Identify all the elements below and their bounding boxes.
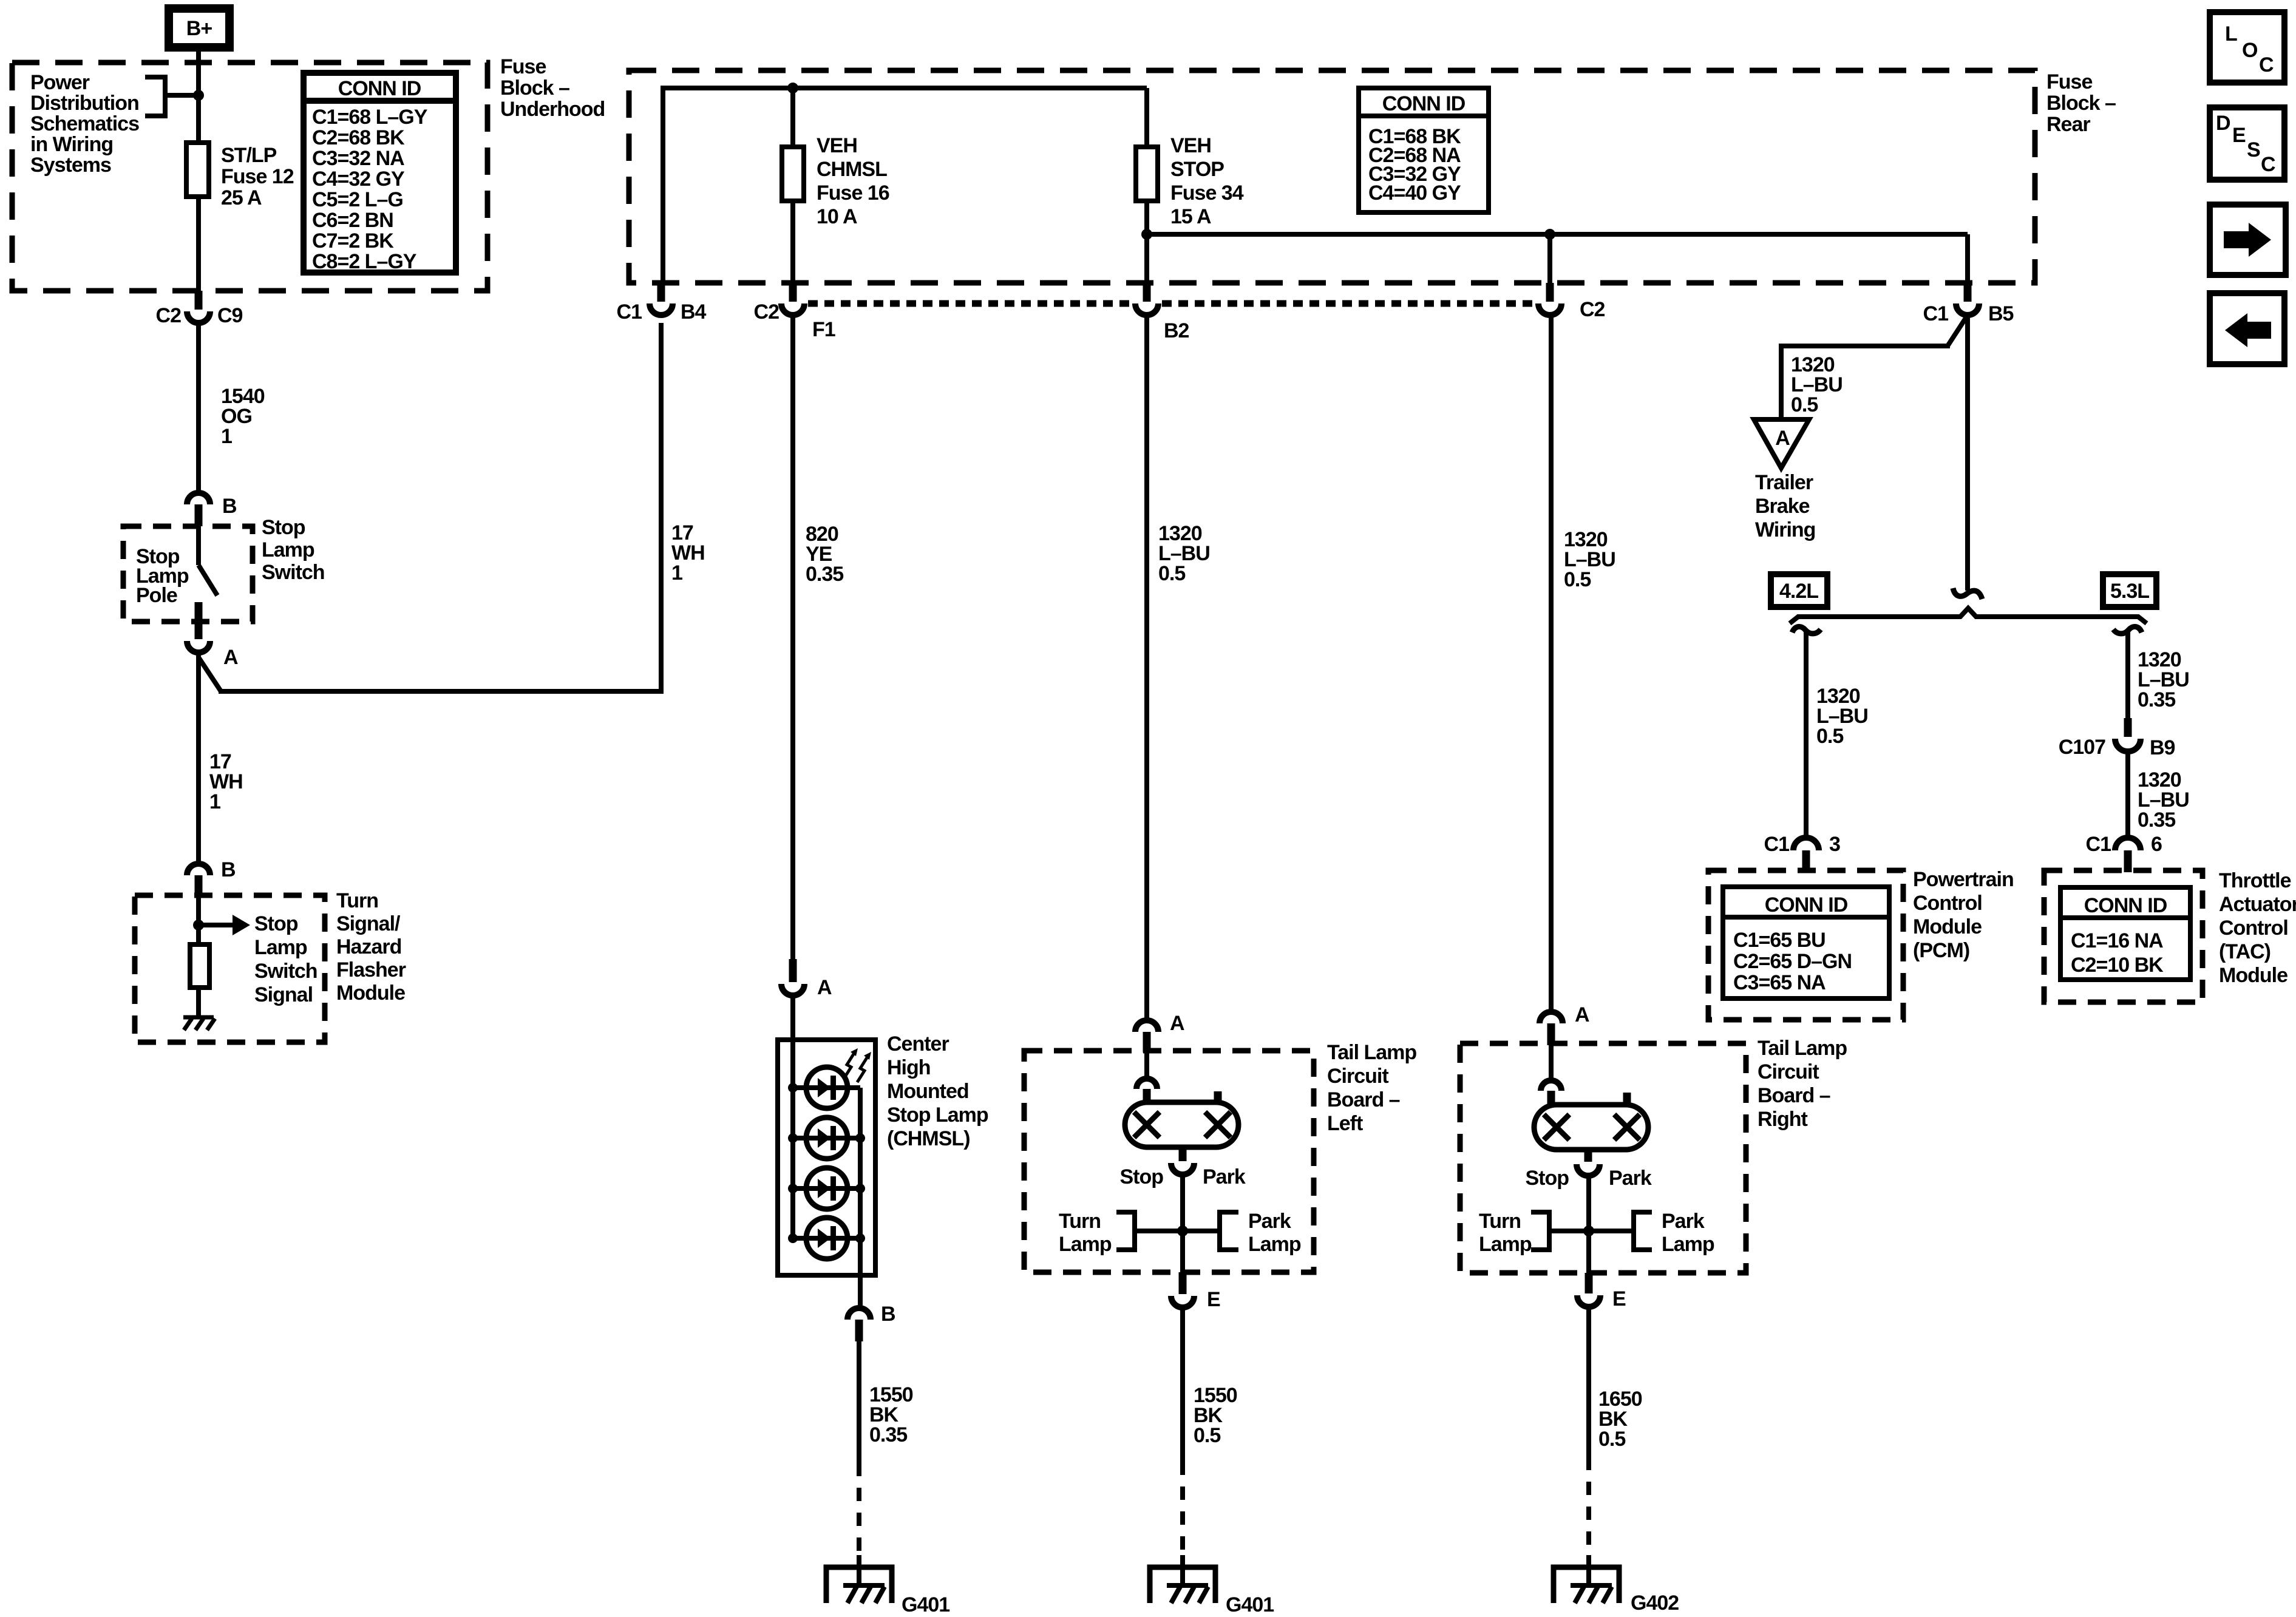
junction dot stop lamp switch signal (193, 920, 204, 931)
svg-text:A: A (1170, 1012, 1184, 1035)
junction dot right tail lamp (1583, 1225, 1594, 1236)
svg-text:3: 3 (1829, 833, 1840, 856)
label 1540 OG 1 (221, 385, 265, 448)
connector B flasher module (187, 858, 236, 895)
connector C107/B9 (2059, 718, 2175, 759)
wire A down to flasher module (196, 654, 201, 862)
svg-text:G402: G402 (1631, 1592, 1679, 1615)
svg-text:C1=65 BU: C1=65 BU (1733, 929, 1826, 952)
junction dot lower bus right (1544, 229, 1555, 240)
svg-text:Park: Park (1662, 1210, 1705, 1233)
svg-text:Module: Module (2219, 964, 2288, 987)
svg-text:Switch: Switch (254, 960, 318, 983)
ground G401 (left tail lamp) (1150, 1567, 1274, 1616)
CHMSL output bus (858, 1088, 863, 1308)
svg-text:Lamp: Lamp (1248, 1233, 1301, 1256)
junction dot top bus (787, 83, 798, 93)
note bracket (145, 77, 199, 116)
label 1320 L-BU 0.5 (PCM) (1816, 685, 1868, 748)
svg-text:5.3L: 5.3L (2110, 580, 2149, 603)
svg-text:(CHMSL): (CHMSL) (887, 1127, 970, 1150)
tail lamp bulb right (1534, 1093, 1648, 1150)
label Turn Signal/Hazard Flasher Module (336, 889, 406, 1005)
svg-text:C9: C9 (217, 304, 243, 327)
svg-text:C5=2 L–G: C5=2 L–G (312, 188, 403, 211)
svg-text:Underhood: Underhood (500, 98, 605, 121)
svg-text:Turn: Turn (1479, 1210, 1521, 1233)
svg-text:Power: Power (30, 71, 90, 94)
label 1320 L-BU 0.35 (upper) (2138, 648, 2189, 711)
label 1320 L-BU 0.5 (left tail) (1158, 522, 1210, 585)
wire 1550 BK 0.35 (857, 1341, 861, 1585)
label Throttle Actuator Control (TAC) Module (2219, 869, 2296, 987)
svg-text:Lamp: Lamp (262, 538, 314, 561)
wire drop to rear C2 (1547, 234, 1552, 283)
wire 820 YE 0.35 (790, 315, 795, 959)
svg-text:1: 1 (671, 561, 682, 585)
wire bulb to circuit junction right (1586, 1176, 1591, 1275)
wire into CHMSL (790, 995, 795, 1042)
svg-text:S: S (2247, 138, 2260, 161)
svg-text:(TAC): (TAC) (2219, 940, 2271, 963)
svg-text:Board –: Board – (1327, 1088, 1400, 1111)
svg-text:Circuit: Circuit (1327, 1065, 1388, 1088)
connector C2 rear (1538, 283, 1605, 321)
label 1320 L-BU 0.5 (right tail) (1564, 528, 1615, 591)
connector C1/6 TAC (2086, 833, 2162, 872)
stop lamp switch dashed box (123, 526, 253, 622)
svg-text:C3=65 NA: C3=65 NA (1733, 971, 1826, 994)
CHMSL lamp box (778, 1040, 875, 1275)
svg-text:1: 1 (209, 790, 220, 813)
label 1550 BK 0.35 (869, 1383, 913, 1446)
svg-text:Lamp: Lamp (1662, 1233, 1714, 1256)
wire into flasher module (196, 895, 201, 946)
label 17 WH 1 (switch output) (209, 750, 243, 813)
fuse block rear dashed box (629, 70, 2035, 283)
svg-text:B: B (881, 1303, 895, 1326)
wire 1550 BK 0.5 (1180, 1307, 1185, 1585)
svg-text:Hazard: Hazard (336, 935, 401, 958)
svg-text:25 A: 25 A (221, 186, 262, 209)
svg-text:C2=10 BK: C2=10 BK (2071, 954, 2164, 977)
svg-text:Park: Park (1609, 1167, 1652, 1190)
svg-text:Tail Lamp: Tail Lamp (1327, 1041, 1416, 1064)
svg-text:0.5: 0.5 (1791, 393, 1818, 416)
svg-text:C7=2 BK: C7=2 BK (312, 229, 394, 253)
svg-text:CONN ID: CONN ID (338, 77, 421, 100)
svg-text:G401: G401 (902, 1593, 949, 1616)
svg-text:Fuse 16: Fuse 16 (817, 181, 889, 205)
park lamp tap left (1220, 1210, 1301, 1256)
label Stop Lamp Switch (262, 516, 325, 584)
svg-text:B2: B2 (1164, 319, 1189, 342)
rear fuse block lower bus (1147, 232, 1968, 237)
svg-text:Turn: Turn (336, 889, 378, 912)
circuit board cross wire left (1135, 1229, 1220, 1233)
svg-text:Pole: Pole (136, 584, 177, 607)
tail lamp circuit board left dashed box (1024, 1051, 1314, 1272)
svg-text:0.5: 0.5 (1816, 725, 1843, 748)
branch curl 4.2L (1792, 626, 1821, 633)
wire 1320 L-BU 0.35 (upper) (2125, 631, 2130, 718)
svg-text:Module: Module (336, 981, 405, 1005)
wire bulb to circuit junction left (1180, 1175, 1185, 1275)
svg-text:Tail Lamp: Tail Lamp (1758, 1037, 1847, 1060)
engine option brace (1790, 608, 2147, 623)
svg-text:C1: C1 (2086, 833, 2111, 856)
fuse VEH STOP Fuse 34 15A (1136, 88, 1244, 283)
svg-text:A: A (223, 646, 238, 669)
svg-text:CHMSL: CHMSL (817, 158, 887, 181)
CONN ID table TAC (2060, 887, 2190, 980)
svg-text:F1: F1 (812, 318, 835, 341)
svg-text:Lamp: Lamp (254, 936, 307, 959)
svg-text:C107: C107 (2059, 736, 2105, 759)
wire C1/B5 to trailer branch (1779, 315, 1968, 591)
connector C1/B5 (1923, 283, 2014, 325)
label Fuse Block - Rear (2046, 70, 2116, 136)
svg-text:E: E (1207, 1288, 1220, 1311)
svg-text:Center: Center (887, 1032, 949, 1056)
wire 1320 L-BU 0.5 (left tail) (1144, 315, 1149, 1020)
svg-text:O: O (2242, 39, 2258, 62)
svg-text:A: A (817, 976, 832, 999)
svg-text:(PCM): (PCM) (1913, 939, 1969, 962)
svg-text:CONN ID: CONN ID (1382, 92, 1466, 115)
inner connector right tail lamp (1541, 1043, 1561, 1106)
label Trailer Brake Wiring (1755, 471, 1815, 541)
svg-text:B: B (221, 858, 236, 881)
nav icon next arrow (2210, 205, 2286, 275)
svg-text:C: C (2261, 153, 2275, 176)
branch curl 5.3L (2113, 626, 2142, 633)
svg-text:C1: C1 (617, 300, 642, 324)
svg-text:0.5: 0.5 (1564, 568, 1591, 591)
connector B CHMSL (847, 1303, 895, 1341)
resistor flasher module input (190, 944, 209, 1017)
powertrain control module dashed box (1708, 870, 1903, 1020)
svg-text:C8=2 L–GY: C8=2 L–GY (312, 250, 417, 273)
note Power Distribution Schematics in Wiring Systems (30, 71, 139, 177)
connector E left (1171, 1272, 1220, 1311)
svg-text:Block –: Block – (500, 76, 569, 100)
svg-text:L: L (2225, 22, 2237, 46)
svg-text:CONN ID: CONN ID (1765, 893, 1848, 917)
svg-text:Schematics: Schematics (30, 112, 139, 135)
svg-text:Throttle: Throttle (2219, 869, 2291, 892)
svg-text:Turn: Turn (1059, 1210, 1101, 1233)
svg-text:Mounted: Mounted (887, 1080, 969, 1103)
svg-text:Actuator: Actuator (2219, 893, 2296, 916)
svg-text:Switch: Switch (262, 561, 325, 584)
label Center High Mounted Stop Lamp (CHMSL) (887, 1032, 988, 1150)
CHMSL LED diodes (793, 1067, 860, 1259)
svg-text:Stop: Stop (1119, 1165, 1163, 1188)
svg-text:C: C (2259, 53, 2274, 76)
svg-text:C4=32 GY: C4=32 GY (312, 168, 405, 191)
svg-text:B+: B+ (186, 17, 212, 40)
junction dot power distribution tap (193, 90, 204, 101)
svg-text:Powertrain: Powertrain (1913, 868, 2014, 891)
svg-text:Park: Park (1248, 1210, 1291, 1233)
svg-text:G401: G401 (1226, 1593, 1274, 1616)
svg-text:0.35: 0.35 (2138, 808, 2175, 832)
svg-text:Signal: Signal (254, 983, 313, 1006)
junction dot lower bus left (1141, 229, 1152, 240)
svg-text:C3=32 NA: C3=32 NA (312, 147, 404, 170)
svg-text:C2: C2 (754, 300, 779, 324)
svg-text:Distribution: Distribution (30, 92, 139, 115)
svg-text:C1: C1 (1764, 833, 1790, 856)
svg-text:C2=68 BK: C2=68 BK (312, 126, 405, 149)
svg-text:1: 1 (221, 425, 232, 448)
svg-text:C1=68 L–GY: C1=68 L–GY (312, 106, 428, 129)
wire 1320 L-BU 0.5 (right tail) (1549, 315, 1554, 1012)
ground G401 (CHMSL) (826, 1567, 949, 1616)
label box 4.2L (1771, 574, 1827, 607)
svg-text:0.5: 0.5 (1598, 1428, 1625, 1451)
svg-text:Control: Control (1913, 892, 1982, 915)
CONN ID table PCM (1723, 887, 1889, 998)
wire 1320 L-BU 0.35 (lower) (2125, 751, 2130, 836)
svg-text:B9: B9 (2150, 736, 2175, 759)
label box 5.3L (2103, 574, 2156, 607)
stop lamp switch signal arrow (199, 915, 250, 935)
svg-text:Circuit: Circuit (1758, 1060, 1819, 1083)
connector C2/F1 (754, 283, 835, 341)
connector B2 (1135, 283, 1189, 342)
label 1550 BK 0.5 (1194, 1384, 1237, 1447)
svg-text:E: E (1612, 1287, 1626, 1310)
svg-text:10 A: 10 A (817, 205, 857, 228)
label Powertrain Control Module (PCM) (1913, 868, 2014, 962)
battery feed B+ symbol (169, 8, 229, 47)
svg-text:ST/LP: ST/LP (221, 144, 277, 167)
wire A to fuse block rear (17 WH 1) (199, 323, 661, 694)
svg-text:6: 6 (2151, 833, 2162, 856)
connector Stop/Park left (1119, 1147, 1245, 1188)
nav icon LOC (2210, 12, 2284, 83)
turn lamp tap right (1479, 1210, 1549, 1256)
connector B stop lamp switch (187, 493, 237, 526)
svg-text:C1=16 NA: C1=16 NA (2071, 929, 2163, 952)
ground flasher module internal (183, 1017, 215, 1030)
label Stop Lamp Switch Signal (254, 912, 318, 1006)
connector Stop/Park right (1525, 1150, 1651, 1190)
CHMSL bus junction dots (788, 1083, 865, 1243)
label 17 WH 1 (vertical run) (671, 521, 705, 585)
svg-text:Stop: Stop (1525, 1167, 1569, 1190)
svg-text:High: High (887, 1056, 931, 1079)
nav icon back arrow (2210, 293, 2284, 364)
svg-text:0.5: 0.5 (1194, 1424, 1220, 1447)
label 820 YE 0.35 (806, 523, 843, 586)
wire 1650 BK 0.5 (1586, 1307, 1591, 1585)
svg-text:Systems: Systems (30, 154, 111, 177)
svg-text:C6=2 BN: C6=2 BN (312, 209, 393, 232)
svg-text:E: E (2232, 124, 2246, 147)
turn lamp tap left (1059, 1210, 1135, 1256)
connector C2/C9 (156, 291, 243, 327)
ground G402 (1554, 1567, 1679, 1615)
svg-text:0.35: 0.35 (869, 1423, 907, 1446)
svg-text:0.35: 0.35 (806, 563, 843, 586)
connector face dotted line (808, 300, 1535, 307)
wire 1540 OG 1 (196, 323, 201, 493)
svg-text:A: A (1775, 427, 1790, 450)
svg-text:Left: Left (1327, 1112, 1363, 1135)
svg-text:C2: C2 (156, 304, 182, 327)
CHMSL input bus (790, 1040, 795, 1238)
throttle actuator control module dashed box (2044, 870, 2203, 1002)
svg-text:15 A: 15 A (1170, 205, 1211, 228)
svg-text:Flasher: Flasher (336, 958, 406, 981)
label Tail Lamp Circuit Board - Right (1758, 1037, 1847, 1131)
svg-text:VEH: VEH (1170, 134, 1211, 157)
wire B+ to ST/LP fuse (196, 52, 201, 144)
label 1320 L-BU 0.5 (trailer) (1791, 353, 1843, 416)
label 1650 BK 0.5 (1598, 1388, 1642, 1451)
tail lamp circuit board right dashed box (1460, 1043, 1746, 1273)
label Tail Lamp Circuit Board - Left (1327, 1041, 1416, 1135)
svg-text:D: D (2216, 112, 2230, 135)
svg-text:Fuse 34: Fuse 34 (1170, 181, 1244, 205)
inner connector left tail lamp (1136, 1051, 1157, 1103)
svg-text:B5: B5 (1988, 302, 2014, 325)
svg-text:CONN ID: CONN ID (2084, 894, 2167, 917)
svg-text:C2=65 D–GN: C2=65 D–GN (1733, 950, 1852, 973)
svg-text:Fuse 12: Fuse 12 (221, 165, 294, 188)
label 1320 L-BU 0.35 (lower) (2138, 768, 2189, 832)
svg-text:Rear: Rear (2046, 113, 2090, 136)
svg-text:Control: Control (2219, 917, 2288, 940)
svg-text:C2: C2 (1580, 298, 1605, 321)
svg-text:Signal/: Signal/ (336, 912, 401, 935)
CONN ID table rear (1359, 88, 1489, 212)
svg-text:Right: Right (1758, 1108, 1808, 1131)
CONN ID table underhood (304, 73, 456, 273)
connector A left tail lamp (1135, 1012, 1184, 1053)
svg-text:B4: B4 (681, 300, 707, 324)
circuit board cross wire right (1549, 1229, 1634, 1233)
CHMSL light emission arrows (844, 1048, 871, 1082)
svg-text:0.35: 0.35 (2138, 688, 2175, 711)
connector A right tail lamp (1540, 1003, 1589, 1045)
wire 1320 L-BU 0.5 (PCM) (1804, 631, 1809, 836)
connector C1/B4 (617, 283, 707, 324)
connector E right (1577, 1273, 1626, 1310)
svg-text:B: B (222, 495, 237, 518)
connector A stop lamp switch (187, 623, 238, 669)
fuse block underhood dashed box (12, 63, 487, 291)
wire drop to C1/B5 (1965, 234, 1970, 283)
label Stop Lamp Pole (136, 545, 189, 607)
rear fuse block top bus (663, 86, 1147, 283)
svg-text:Park: Park (1203, 1165, 1246, 1188)
fuse VEH CHMSL Fuse 16 10A (782, 88, 889, 283)
switch pole contacts and blade (195, 526, 218, 623)
junction dot left tail lamp (1177, 1225, 1188, 1236)
park lamp tap right (1634, 1210, 1714, 1256)
tail lamp bulb left (1125, 1091, 1238, 1147)
label Fuse Block - Underhood (500, 55, 605, 121)
svg-text:C1: C1 (1923, 302, 1949, 325)
trailer brake wiring triangle A (1754, 419, 1809, 468)
connector C1/3 PCM (1764, 833, 1840, 872)
svg-text:Board –: Board – (1758, 1084, 1830, 1107)
nav icon DESC (2210, 107, 2284, 180)
svg-text:0.5: 0.5 (1158, 562, 1185, 585)
svg-text:Stop: Stop (262, 516, 305, 539)
svg-text:Wiring: Wiring (1755, 518, 1815, 541)
svg-text:Brake: Brake (1755, 495, 1810, 518)
svg-text:C4=40 GY: C4=40 GY (1368, 181, 1461, 205)
svg-text:A: A (1575, 1003, 1589, 1026)
svg-text:Stop Lamp: Stop Lamp (887, 1103, 988, 1127)
connector A CHMSL (781, 959, 832, 999)
svg-text:Lamp: Lamp (1479, 1233, 1532, 1256)
svg-text:VEH: VEH (817, 134, 857, 157)
svg-text:Fuse: Fuse (500, 55, 546, 78)
svg-text:in Wiring: in Wiring (30, 133, 113, 156)
svg-text:Stop: Stop (254, 912, 298, 935)
svg-text:Lamp: Lamp (1059, 1233, 1112, 1256)
svg-text:Fuse: Fuse (2046, 70, 2092, 93)
svg-text:Block –: Block – (2046, 92, 2116, 115)
svg-text:STOP: STOP (1170, 158, 1224, 181)
wire break symbol engine feed (1953, 588, 1982, 599)
turn signal / hazard flasher module dashed box (135, 895, 325, 1042)
svg-text:Trailer: Trailer (1755, 471, 1813, 494)
svg-text:4.2L: 4.2L (1779, 580, 1818, 603)
fuse ST/LP Fuse 12 25A (186, 143, 294, 291)
svg-text:Module: Module (1913, 915, 1982, 938)
